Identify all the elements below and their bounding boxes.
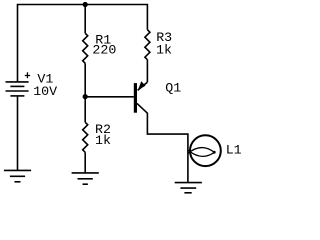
svg-text:L1: L1	[226, 143, 242, 158]
svg-text:1k: 1k	[156, 42, 172, 57]
svg-text:Q1: Q1	[165, 80, 181, 95]
svg-text:1k: 1k	[95, 133, 111, 148]
svg-text:220: 220	[92, 43, 116, 58]
svg-text:10V: 10V	[33, 84, 57, 99]
